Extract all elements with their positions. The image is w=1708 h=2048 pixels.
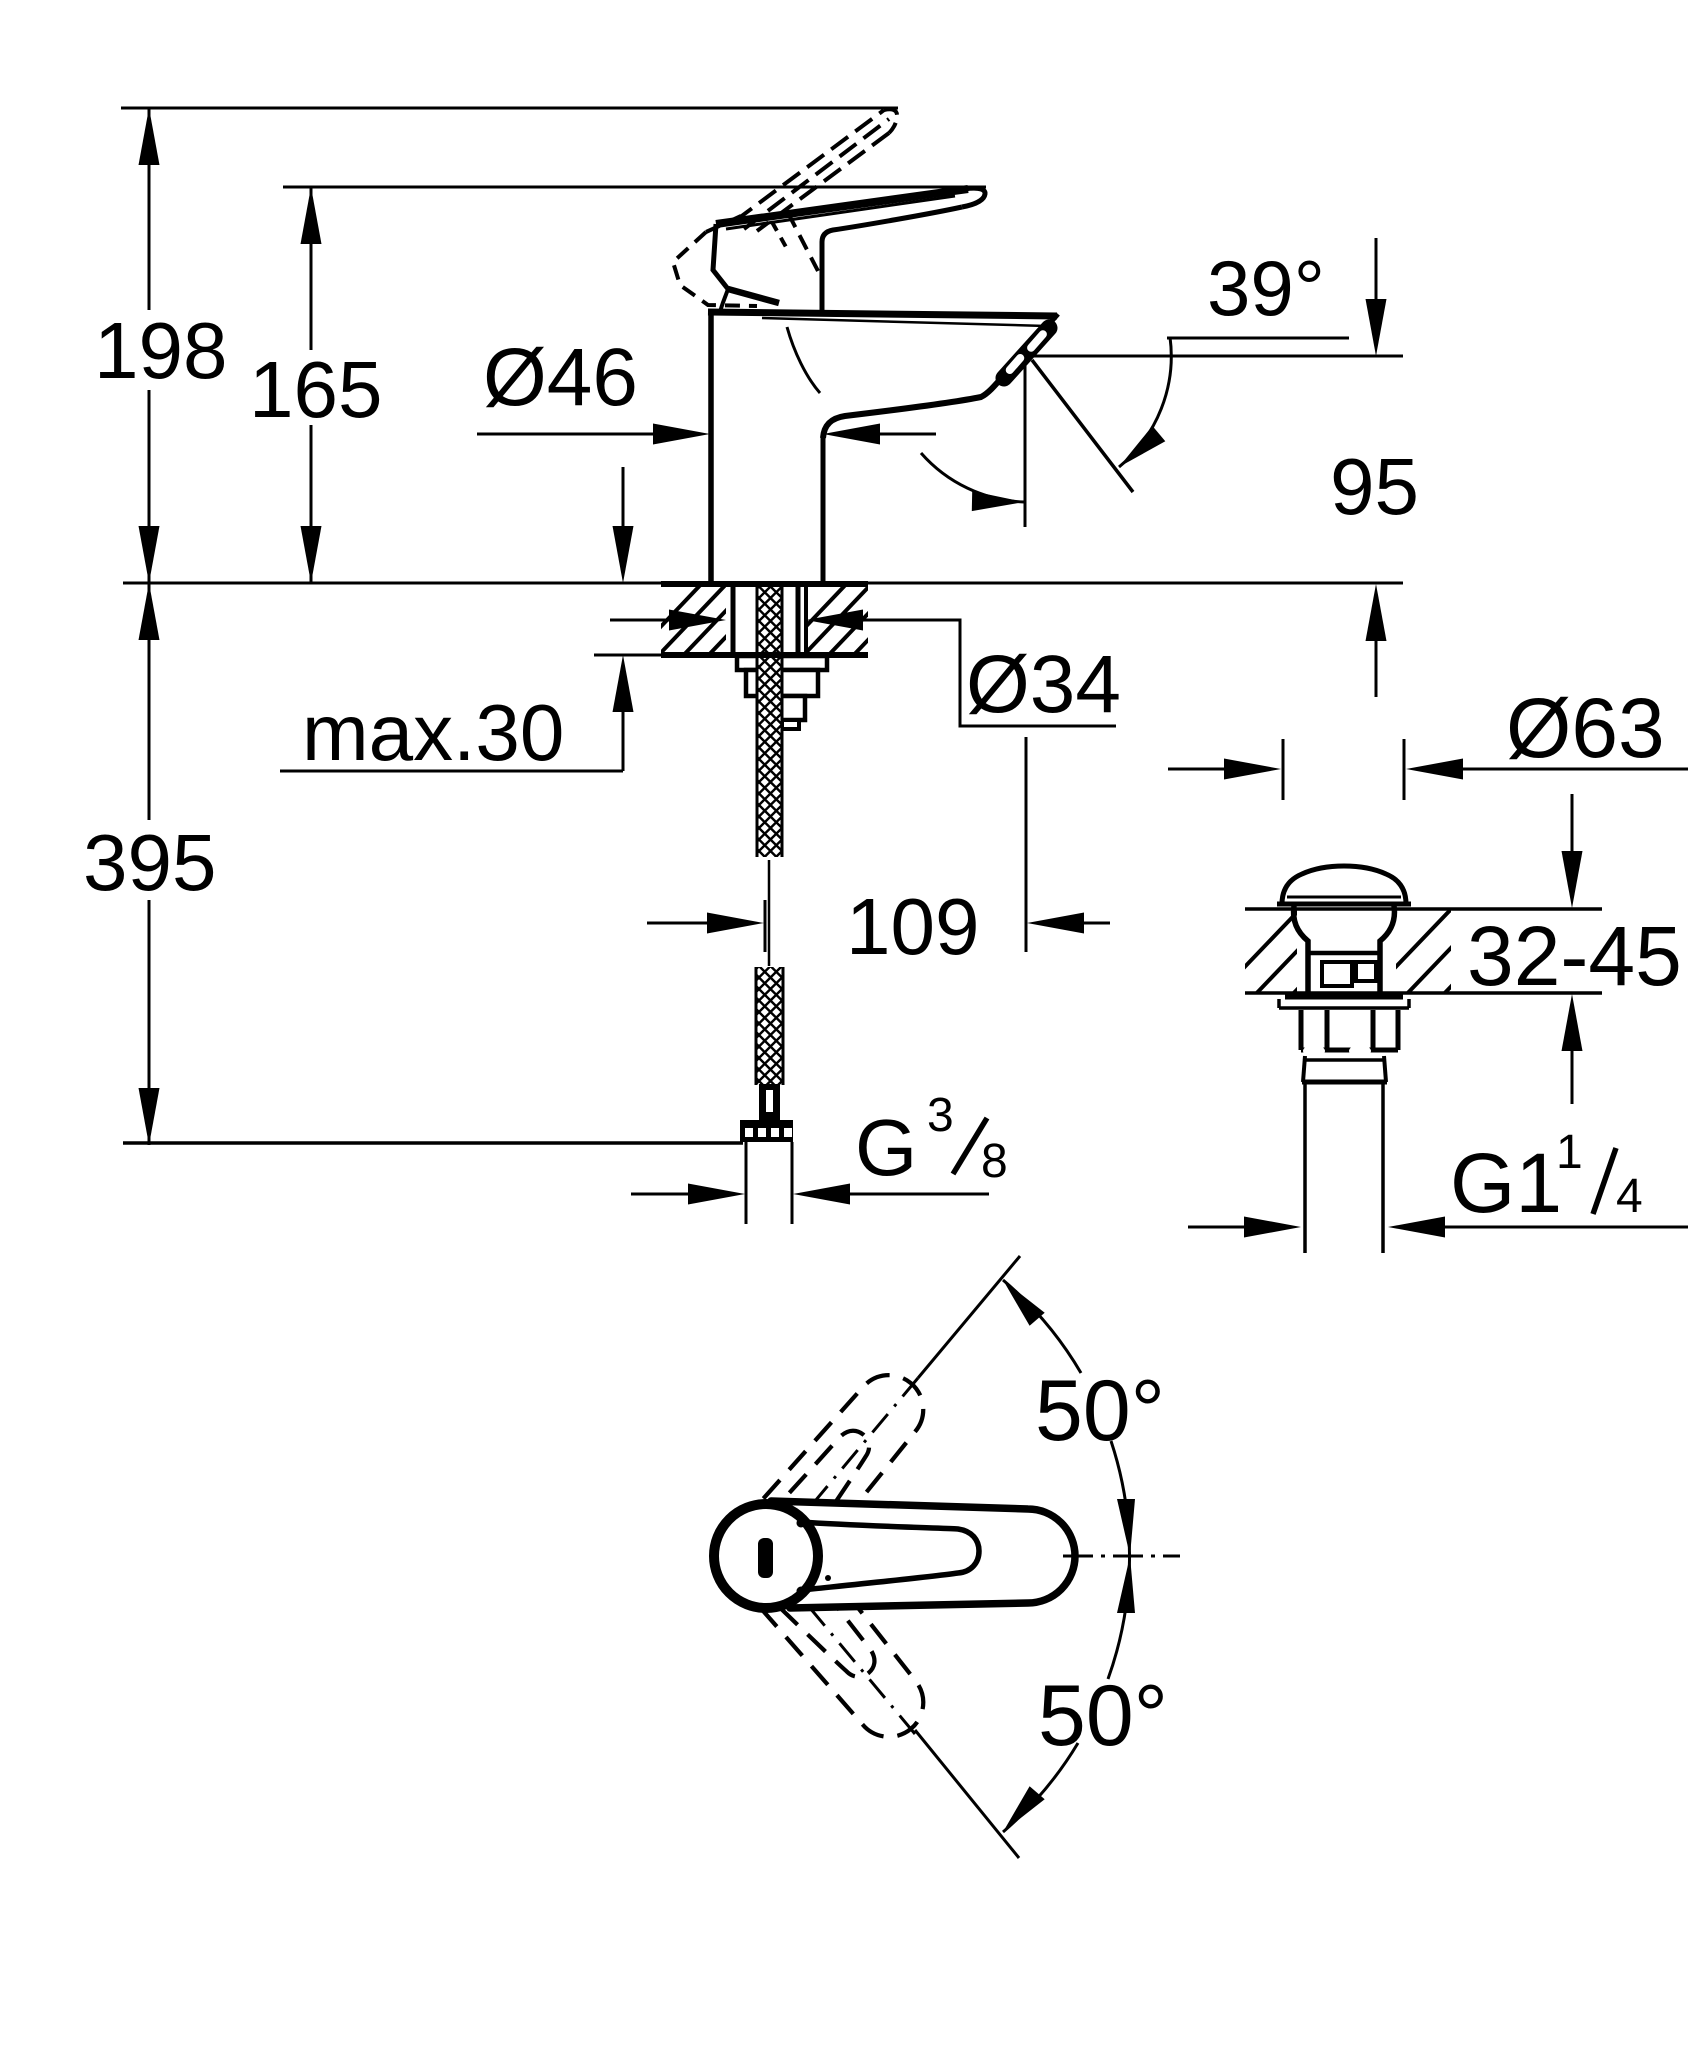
pop-up drain internal window 1 <box>1322 962 1352 986</box>
aerator slot 1 <box>1025 329 1048 354</box>
faucet mounting shank walls <box>731 583 736 655</box>
handle top view dashed position up <box>738 1357 940 1577</box>
spray direction line <box>1032 360 1133 492</box>
dimension 165 extension line <box>283 186 986 189</box>
raised handle dashed base edge <box>788 213 818 271</box>
counter top line <box>123 582 1403 585</box>
svg-text:Ø46: Ø46 <box>483 332 638 423</box>
50 degree bowtie arrows <box>1117 1499 1135 1556</box>
39 degree arc left <box>921 453 1024 502</box>
dimension G38 left arrow <box>631 1193 689 1196</box>
dimension diameter 63 left arrow <box>1168 768 1227 771</box>
39 degree label shelf <box>1167 337 1349 340</box>
dimension max30 leader line <box>280 770 623 773</box>
handle dot bottom <box>797 1587 806 1596</box>
handle lever top edge <box>716 189 968 224</box>
hose break centerline <box>768 860 771 966</box>
dimension max30 down arrow <box>622 467 625 527</box>
mounting washer <box>737 656 827 670</box>
hose nut G3/8 <box>740 1120 793 1142</box>
pop-up drain flange <box>1285 995 1403 1000</box>
pop-up drain tailpipe <box>1303 1083 1307 1253</box>
pop-up drain internal window 2 <box>1356 962 1376 981</box>
faucet body left edge <box>708 311 714 584</box>
aerator face <box>1006 314 1058 373</box>
handle top view dashed position down <box>739 1533 941 1753</box>
handle lever bottom edge and base <box>822 207 962 313</box>
aerator slot 2 <box>1004 352 1026 375</box>
sink deck hatching right <box>1366 904 1567 998</box>
swivel axis line down <box>915 1730 1019 1858</box>
dimension diameter 63 right arrow <box>1406 759 1463 780</box>
raised handle dashed knuckle <box>673 232 757 306</box>
handle dot top <box>797 1519 806 1528</box>
spout outlet level line <box>1027 355 1403 358</box>
dimension G38 right arrow <box>793 1184 850 1205</box>
svg-text:50°: 50° <box>1038 1668 1168 1764</box>
svg-text:198: 198 <box>94 306 227 395</box>
pop-up drain gasket <box>1304 1058 1385 1062</box>
dimension 3245 up arrow <box>1562 994 1583 1051</box>
svg-text:395: 395 <box>83 818 216 907</box>
svg-text:G1: G1 <box>1450 1136 1562 1230</box>
sink deck hatching left <box>1215 904 1416 998</box>
dimension 198 line <box>148 108 151 310</box>
svg-text:Ø63: Ø63 <box>1506 681 1665 775</box>
svg-text:1: 1 <box>1556 1126 1583 1179</box>
handle knuckle bottom edge <box>728 289 779 303</box>
svg-text:165: 165 <box>249 345 382 434</box>
raised handle dashed bottom edge <box>757 133 889 231</box>
svg-text:32-45: 32-45 <box>1467 909 1682 1003</box>
svg-text:Ø34: Ø34 <box>966 639 1121 730</box>
handle lever tip <box>955 188 985 207</box>
dimension 165 line <box>310 187 313 350</box>
svg-text:G: G <box>855 1103 917 1192</box>
braided supply hose upper segment <box>757 583 782 857</box>
handle knuckle left edge <box>713 224 728 289</box>
svg-text:max.30: max.30 <box>302 688 564 777</box>
dimension 109 left arrow <box>647 922 708 925</box>
pop-up drain dome cap <box>1282 866 1406 904</box>
counter bottom line <box>594 654 661 657</box>
svg-text:8: 8 <box>981 1135 1008 1188</box>
handle lever inner line <box>726 196 955 229</box>
dimension diameter 34 left arrow <box>610 619 671 622</box>
spout underside <box>823 375 1004 438</box>
handle top view solid outline <box>710 1500 822 1612</box>
dimension diameter 46 right arrow <box>823 424 880 445</box>
mounting nut <box>746 670 818 696</box>
handle top view inner slot <box>800 1522 979 1590</box>
mounting nut lower step <box>768 696 805 720</box>
dimension diameter 63 ticks <box>1282 739 1285 800</box>
dimension 109 right arrow <box>1027 913 1084 934</box>
handle set-screw slot <box>758 1538 773 1578</box>
svg-text:39°: 39° <box>1207 244 1325 332</box>
mounting nut small step <box>782 720 799 729</box>
handle knob circle <box>714 1504 818 1608</box>
sink deck bottom line <box>1245 991 1602 995</box>
dimension 109 tick right <box>1025 737 1028 952</box>
pop-up drain hex nut <box>1299 1010 1304 1050</box>
50 degree arc <box>1003 1280 1081 1373</box>
dimension max30 up arrow <box>613 655 634 712</box>
39 degree arc right <box>1119 337 1171 467</box>
handle centerline <box>1063 1555 1180 1558</box>
svg-text:109: 109 <box>846 882 979 971</box>
braided supply hose lower segment <box>756 967 783 1085</box>
faucet body right edge <box>821 436 826 584</box>
svg-text:4: 4 <box>1616 1170 1643 1223</box>
dimension G114 left arrow <box>1188 1226 1246 1229</box>
raised handle dashed top inner edge <box>744 119 889 229</box>
raised handle dashed tip <box>884 109 897 133</box>
body inner curve <box>787 327 820 393</box>
dimension diameter 46 left arrow <box>477 433 654 436</box>
dimension 395 line <box>148 583 151 820</box>
svg-text:95: 95 <box>1330 442 1419 531</box>
aerator band <box>1004 328 1049 378</box>
dimension 3245 down arrow <box>1571 794 1574 852</box>
hose end reference line <box>123 1141 743 1145</box>
faucet body / spout top edge <box>708 312 1057 316</box>
sink deck top line <box>1245 907 1602 911</box>
dimension 109 tick left <box>764 900 767 952</box>
dimension G114 right arrow <box>1388 1217 1445 1238</box>
raised handle dashed top edge <box>735 110 884 221</box>
dimension diameter 34 right arrow <box>806 610 863 631</box>
counter cross-section hatching right <box>773 577 978 661</box>
spout top inner line <box>762 318 1046 326</box>
pop-up drain flared neck <box>1294 906 1308 994</box>
dimension 95 line bottom <box>1366 584 1387 641</box>
svg-text:3: 3 <box>927 1089 954 1142</box>
dimension 198 extension line top <box>121 107 898 110</box>
handle dot small <box>825 1575 831 1581</box>
handle knuckle foot curve <box>720 289 728 313</box>
svg-text:50°: 50° <box>1035 1363 1165 1459</box>
connection pipe G3/8 <box>745 1142 748 1224</box>
aerator vertical reference line <box>1024 360 1027 527</box>
swivel axis line up <box>918 1256 1020 1378</box>
hose end fitting neck <box>759 1084 780 1120</box>
dimension 95 line top <box>1375 238 1378 300</box>
